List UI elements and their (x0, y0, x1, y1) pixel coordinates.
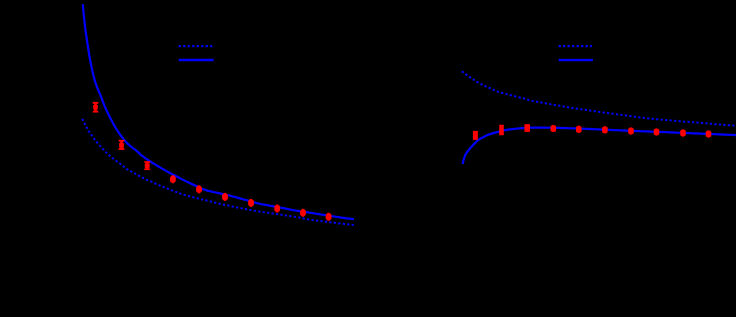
left data point 8 (274, 205, 280, 213)
left plot solid theory curve (83, 4, 354, 219)
right legend dotted line sample (559, 45, 592, 47)
left legend dotted line sample (179, 45, 213, 47)
left data point 6 (222, 193, 228, 201)
right plot dotted theory curve (462, 71, 736, 125)
left data point 4 (170, 175, 176, 183)
right data point 2 (499, 125, 504, 135)
right data point 8 (654, 128, 660, 135)
left data point 3 with error bar (144, 161, 150, 170)
left data point 1 with error bar (93, 102, 99, 113)
right data point 1 (473, 131, 478, 140)
right data point 5 (576, 126, 582, 133)
right data point 3 (524, 124, 530, 132)
right data point 9 (680, 129, 686, 136)
right plot solid theory curve (463, 128, 736, 164)
right data point 6 (602, 126, 608, 133)
left data point 2 with error bar (119, 140, 125, 150)
right data point 10 (706, 130, 712, 137)
left plot dotted theory curve (82, 119, 356, 226)
left legend solid line sample (179, 59, 214, 61)
left data point 5 (196, 185, 202, 193)
right data point 4 (551, 125, 557, 132)
right legend solid line sample (559, 59, 593, 61)
left data point 7 (248, 199, 254, 207)
left data point 9 (300, 209, 306, 217)
right data point 7 (628, 127, 634, 134)
left data point 10 (326, 213, 332, 221)
